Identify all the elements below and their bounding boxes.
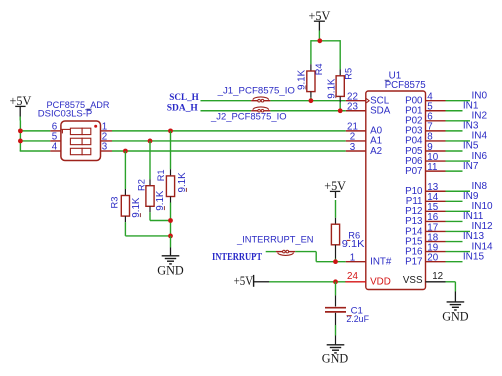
svg-text:20: 20 bbox=[427, 252, 438, 263]
svg-text:R5: R5 bbox=[344, 68, 354, 80]
svg-text:4: 4 bbox=[52, 141, 58, 152]
pin 15 P12 (U1 right) bbox=[405, 202, 445, 217]
svg-text:GND: GND bbox=[322, 351, 349, 365]
wire IN13 net bbox=[446, 241, 463, 243]
label _INTERRUPT_EN bbox=[236, 235, 314, 245]
svg-text:9.1K: 9.1K bbox=[342, 239, 365, 250]
wire IN15 net bbox=[446, 261, 463, 263]
wire +5V to DIP pin 6 bbox=[20, 130, 51, 132]
pin 6 P02 (U1 right) bbox=[405, 112, 445, 127]
ground GND (below C1) bbox=[322, 345, 349, 366]
pin 24 VDD (U1 left) bbox=[345, 271, 390, 288]
wire INTERRUPT right bbox=[295, 252, 346, 262]
pin 18 P15 (U1 right) bbox=[405, 232, 445, 247]
capacitor C1 2.2uF bbox=[325, 306, 369, 325]
svg-text:GND: GND bbox=[157, 264, 184, 278]
svg-text:R3: R3 bbox=[110, 197, 120, 209]
svg-text:A2: A2 bbox=[370, 146, 382, 157]
pin 1 INT# (U1 left) bbox=[346, 252, 392, 267]
pin 22 SCL (U1 left) bbox=[346, 92, 390, 107]
wire +5V to R6 bbox=[335, 200, 337, 224]
wire IN14 net bbox=[446, 251, 471, 253]
svg-text:_J1_PCF8575_IO: _J1_PCF8575_IO bbox=[217, 85, 295, 96]
wire +5V tee horizontal bbox=[311, 40, 340, 42]
svg-text:DSIC03LS-P: DSIC03LS-P bbox=[38, 108, 93, 118]
wire SDA right segment bbox=[270, 110, 345, 112]
junction A0/R1 bbox=[168, 128, 173, 133]
net label IN0 bbox=[472, 90, 488, 101]
svg-text:11: 11 bbox=[427, 162, 437, 173]
pin 21 A0 (U1 left) bbox=[346, 122, 383, 137]
wire R3 bottom to R1 column bbox=[125, 235, 170, 237]
pin 19 P16 (U1 right) bbox=[405, 242, 445, 257]
net label IN8 bbox=[472, 181, 488, 192]
resistor R3 9.1K bbox=[110, 151, 143, 236]
wire IN3 net bbox=[446, 130, 463, 132]
junction R6/INT# bbox=[333, 259, 338, 264]
svg-text:SDA: SDA bbox=[370, 106, 391, 117]
DIP switch S1 DSIC03LS-P (PCF8575_ADR) bbox=[50, 121, 112, 161]
pin 9 P05 (U1 right) bbox=[405, 142, 445, 157]
IC U1 PCF8575 body bbox=[366, 91, 426, 290]
pin 20 P17 (U1 right) bbox=[405, 252, 445, 267]
wire +5V to DIP pin 5 bbox=[20, 140, 51, 142]
power +5V supply (VDD) bbox=[234, 274, 270, 288]
label _J1_PCF8575_IO bbox=[217, 85, 295, 96]
pin 13 P10 (U1 right) bbox=[405, 182, 445, 197]
wire INTERRUPT left bbox=[266, 251, 276, 253]
wire junction to GND (left) bbox=[170, 236, 172, 256]
label U1 bbox=[389, 71, 402, 82]
pin 2 A1 (U1 left) bbox=[346, 132, 382, 147]
wire SCL right segment bbox=[270, 100, 345, 102]
wire IN12 net bbox=[446, 230, 471, 232]
pin 3 A2 (U1 left) bbox=[346, 142, 382, 157]
pin 8 P04 (U1 right) bbox=[405, 132, 445, 147]
junction R3 bottom join bbox=[168, 234, 173, 239]
wire VSS to GND bbox=[446, 282, 456, 302]
wire IN11 net bbox=[446, 220, 463, 222]
label PCF8575_ADR bbox=[47, 100, 110, 110]
wire A2 net (DIP 3 to U1 pin 3) bbox=[112, 150, 346, 152]
svg-text:VDD: VDD bbox=[370, 277, 391, 288]
resistor R2 9.1K bbox=[136, 141, 166, 221]
clock marker on SCL pin bbox=[366, 98, 369, 103]
svg-text:VSS: VSS bbox=[403, 275, 423, 286]
junction A1/R2 bbox=[148, 139, 153, 144]
wire IN4 net bbox=[446, 140, 471, 142]
ground GND (left) bbox=[157, 256, 184, 278]
net label SCL_H bbox=[169, 93, 199, 103]
svg-text:P17: P17 bbox=[405, 256, 422, 267]
wire R1 column down bbox=[170, 221, 172, 236]
svg-text:SCL_H: SCL_H bbox=[169, 93, 199, 103]
net label IN1 bbox=[463, 100, 479, 111]
label _J2_PCF8575_IO bbox=[210, 112, 287, 123]
power +5V supply (top middle) bbox=[309, 9, 331, 41]
net label IN5 bbox=[463, 141, 479, 152]
resistor R6 9.1K bbox=[331, 224, 365, 261]
svg-text:INTERRUPT: INTERRUPT bbox=[212, 252, 262, 263]
svg-text:R4: R4 bbox=[314, 63, 324, 75]
svg-text:SDA_H: SDA_H bbox=[167, 103, 199, 113]
junction R5/SDA bbox=[338, 108, 343, 113]
pin 23 SDA (U1 left) bbox=[346, 102, 391, 117]
wire SCL left segment bbox=[201, 100, 252, 102]
wire C1 to GND bbox=[335, 313, 337, 345]
svg-text:23: 23 bbox=[347, 102, 358, 113]
wire +5V down to DIP rows bbox=[19, 121, 21, 152]
svg-text:24: 24 bbox=[347, 271, 358, 282]
wire IN10 net bbox=[446, 210, 471, 212]
net label IN9 bbox=[463, 191, 479, 202]
net label IN15 bbox=[463, 251, 485, 262]
svg-text:_J2_PCF8575_IO: _J2_PCF8575_IO bbox=[210, 112, 287, 123]
net label IN12 bbox=[472, 221, 494, 232]
wire +5V down to R5 bbox=[339, 40, 341, 76]
wire A0 net (DIP 1 to U1 pin 21) bbox=[112, 130, 346, 132]
pin 14 P11 (U1 right) bbox=[406, 192, 446, 207]
pin 12 VSS (U1 right) bbox=[403, 271, 446, 286]
pin 5 P01 (U1 right) bbox=[405, 102, 445, 117]
wire R2 bottom to R1 column bbox=[150, 220, 171, 222]
jumper INTERRUPT_EN bbox=[276, 250, 295, 255]
svg-text:_INTERRUPT_EN: _INTERRUPT_EN bbox=[236, 235, 314, 245]
pin 10 P06 (U1 right) bbox=[405, 152, 445, 167]
pin 7 P03 (U1 right) bbox=[405, 122, 445, 137]
wire IN9 net bbox=[446, 200, 463, 202]
junction VDD/C1 bbox=[333, 279, 338, 284]
svg-text:IN15: IN15 bbox=[463, 251, 485, 262]
svg-text:GND: GND bbox=[442, 310, 469, 324]
svg-text:12: 12 bbox=[432, 271, 443, 282]
power +5V supply (top-left) bbox=[10, 94, 32, 121]
wire +5V down to R4 bbox=[310, 40, 312, 71]
pin 17 P14 (U1 right) bbox=[405, 222, 445, 237]
svg-text:PCF8575: PCF8575 bbox=[385, 80, 427, 91]
net label IN7 bbox=[463, 161, 479, 172]
net label IN2 bbox=[472, 111, 488, 122]
net label SDA_H bbox=[167, 103, 199, 113]
svg-text:R1: R1 bbox=[156, 169, 166, 181]
svg-text:R2: R2 bbox=[136, 179, 146, 191]
jumper J2 PCF8575_IO bbox=[251, 107, 270, 112]
resistor R5 9.1K bbox=[326, 68, 353, 111]
pin 11 P07 (U1 right) bbox=[405, 162, 445, 177]
wire IN2 net bbox=[446, 120, 471, 122]
wire IN7 net bbox=[446, 170, 463, 172]
wire +5V to VDD pin bbox=[269, 281, 346, 283]
svg-text:3: 3 bbox=[102, 141, 108, 152]
net label IN10 bbox=[472, 201, 494, 212]
net label IN6 bbox=[472, 151, 488, 162]
junction A2/R3 bbox=[123, 149, 128, 154]
junction R1/R2 bottoms bbox=[168, 218, 173, 223]
junction +5V / DIP pin 6 row bbox=[18, 128, 23, 133]
wire IN0 net bbox=[446, 100, 471, 102]
wire +5V to DIP pin 4 bbox=[20, 150, 51, 152]
resistor R1 9.1K bbox=[156, 131, 188, 221]
svg-text:1: 1 bbox=[350, 252, 355, 263]
power +5V supply (above R6) bbox=[324, 179, 346, 198]
junction +5V / DIP pin 5 row bbox=[18, 139, 23, 144]
wire SDA left segment bbox=[201, 110, 252, 112]
pin 16 P13 (U1 right) bbox=[405, 212, 445, 227]
net label IN4 bbox=[472, 131, 488, 142]
resistor R4 9.1K bbox=[297, 63, 324, 100]
svg-text:INT#: INT# bbox=[370, 256, 392, 267]
wire IN1 net bbox=[446, 110, 463, 112]
net label IN3 bbox=[463, 121, 479, 132]
wire IN5 net bbox=[446, 150, 463, 152]
label DSIC03LS-P bbox=[38, 108, 93, 118]
pin 4 P00 (U1 right) bbox=[405, 92, 445, 107]
net label IN14 bbox=[472, 241, 494, 252]
net label IN11 bbox=[463, 211, 484, 222]
ground GND (VSS) bbox=[442, 302, 469, 324]
junction R4/SCL bbox=[309, 98, 314, 103]
svg-text:3: 3 bbox=[350, 142, 356, 153]
label PCF8575 (value) bbox=[385, 80, 427, 91]
junction +5V tee bbox=[317, 38, 322, 43]
wire VDD junction down to C1 bbox=[335, 282, 337, 307]
wire A1 net (DIP 2 to U1 pin 2) bbox=[112, 140, 346, 142]
svg-text:IN7: IN7 bbox=[463, 161, 479, 172]
wire IN8 net bbox=[446, 190, 471, 192]
svg-text:+5V: +5V bbox=[234, 274, 254, 288]
jumper J1 PCF8575_IO bbox=[251, 97, 270, 102]
net label INTERRUPT bbox=[212, 252, 262, 263]
wire IN6 net bbox=[446, 160, 471, 162]
svg-text:P07: P07 bbox=[405, 166, 422, 177]
net label IN13 bbox=[463, 231, 485, 242]
